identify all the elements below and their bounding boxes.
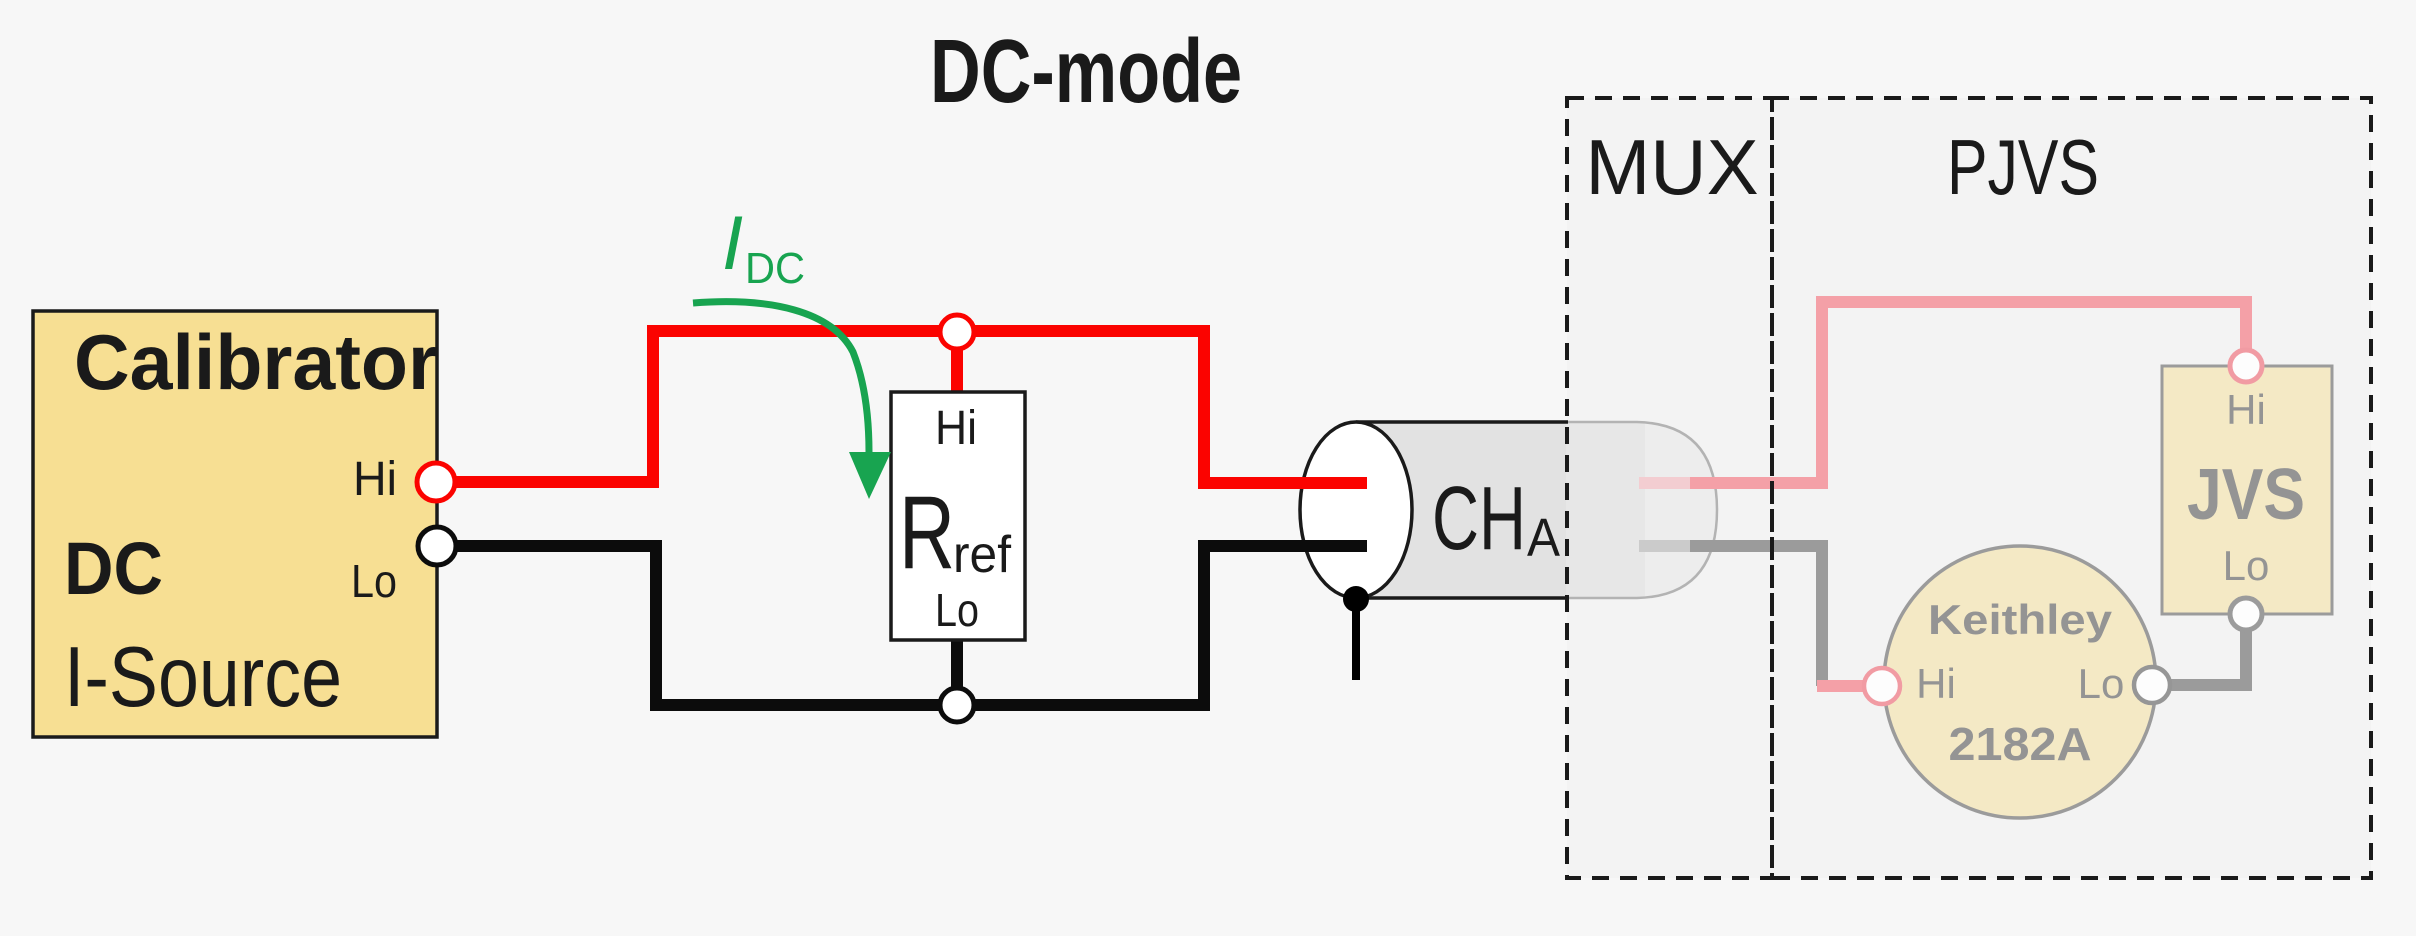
svg-text:Hi: Hi xyxy=(935,402,977,455)
svg-text:Hi: Hi xyxy=(353,453,397,506)
svg-text:Keithley: Keithley xyxy=(1928,596,2113,643)
svg-text:Hi: Hi xyxy=(1916,660,1956,707)
svg-text:I: I xyxy=(722,201,743,286)
svg-text:DC: DC xyxy=(745,244,805,293)
svg-text:I-Source: I-Source xyxy=(64,630,342,725)
svg-text:MUX: MUX xyxy=(1585,123,1758,211)
svg-text:ref: ref xyxy=(953,526,1012,584)
svg-text:Lo: Lo xyxy=(935,584,979,636)
svg-text:PJVS: PJVS xyxy=(1947,123,2099,211)
svg-text:A: A xyxy=(1527,508,1560,568)
svg-text:R: R xyxy=(899,475,955,591)
svg-text:DC: DC xyxy=(64,527,163,610)
svg-text:CH: CH xyxy=(1432,469,1526,569)
svg-text:Calibrator: Calibrator xyxy=(74,318,438,406)
svg-text:Lo: Lo xyxy=(2223,542,2270,589)
svg-text:Lo: Lo xyxy=(351,555,397,607)
svg-text:Lo: Lo xyxy=(2078,660,2125,707)
svg-text:2182A: 2182A xyxy=(1949,718,2092,770)
svg-text:Hi: Hi xyxy=(2226,386,2266,433)
svg-text:JVS: JVS xyxy=(2187,455,2305,535)
svg-text:DC-mode: DC-mode xyxy=(930,22,1242,122)
